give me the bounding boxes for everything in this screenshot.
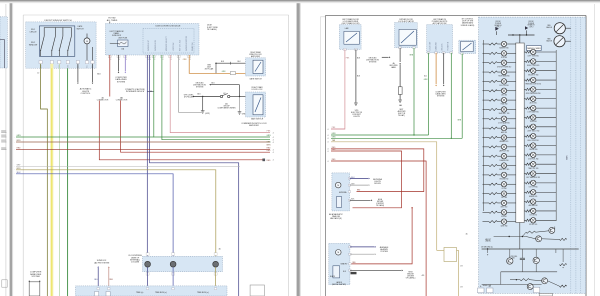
title FRONT WINDOW SWITCH xyxy=(45,20,72,22)
svg-text:SYSTEM: SYSTEM xyxy=(437,95,445,97)
svg-text:4: 4 xyxy=(273,142,274,144)
switch blade 4 xyxy=(67,28,71,57)
driver door lock actuator box xyxy=(395,23,418,48)
row BLU to clockspring motor 2 xyxy=(16,174,173,261)
svg-text:4: 4 xyxy=(327,129,328,131)
svg-text:4: 4 xyxy=(327,135,328,137)
label MST auxpwr left delay xyxy=(398,109,407,117)
right page outer light frame xyxy=(319,17,321,296)
title driver door lock actuator xyxy=(398,19,414,25)
resistor bottom right xyxy=(560,285,567,287)
label clockspring column xyxy=(128,255,142,264)
antenna2 pin cells xyxy=(349,246,351,248)
motor pin labels xyxy=(146,253,149,256)
svg-text:SYSTEM: SYSTEM xyxy=(117,81,126,83)
wire computer data line K with arrow xyxy=(118,55,120,72)
antenna1 pin cells xyxy=(348,178,350,180)
svg-text:4: 4 xyxy=(273,137,274,139)
cluster lamp L11 AIRBAG IND xyxy=(483,135,516,143)
svg-text:4: 4 xyxy=(190,59,191,61)
ground for driver door actuator xyxy=(398,99,402,101)
svg-text:UNIT FUSE: UNIT FUSE xyxy=(118,38,128,40)
power window switch assembly box xyxy=(26,22,96,68)
label combination switch lock amplifier xyxy=(241,122,267,127)
label left light components wires xyxy=(217,104,236,110)
svg-text:DDM CONTROL MODULE: DDM CONTROL MODULE xyxy=(156,26,181,28)
left rear door lock amplifier box xyxy=(339,25,361,50)
cluster lamp L13 CHARGE IND xyxy=(483,154,516,162)
cluster lamp R9 LIGHT FAULT IND xyxy=(524,124,556,132)
svg-text:CONNECTOR: CONNECTOR xyxy=(116,99,128,101)
svg-text:MIRROR SELECT: MIRROR SELECT xyxy=(166,35,168,51)
svg-text:SWITCH: SWITCH xyxy=(76,28,84,30)
cluster top bus xyxy=(508,34,535,36)
right paper edge faint line xyxy=(594,4,596,296)
fuse F1 xyxy=(118,38,128,40)
svg-text:KEY CYL SW: KEY CYL SW xyxy=(180,40,182,51)
svg-text:SYSTEM: SYSTEM xyxy=(380,251,388,253)
wire GRN pin4 to row xyxy=(450,53,452,139)
fuse feed wire xyxy=(109,22,111,40)
cluster lower sub-circuit 3 xyxy=(516,279,517,280)
pin wire color labels inside switch box xyxy=(40,65,42,68)
from power branch label 2 xyxy=(528,21,536,29)
bottom white box in cluster xyxy=(539,293,552,296)
label DDM left side of dash xyxy=(207,25,218,32)
label AS magnetic realign AM radio xyxy=(329,213,344,220)
svg-text:FUSE BOX: FUSE BOX xyxy=(112,35,122,37)
transistor Q2 xyxy=(536,236,542,242)
transistor Q4 xyxy=(533,257,539,263)
from power branch label 1 xyxy=(495,21,503,29)
wire RED from fuse xyxy=(109,55,111,97)
cluster lamp R13 TRAC OFF IND xyxy=(524,162,556,170)
wire NAVY A to clockspring motor 1 xyxy=(146,55,148,261)
left instrument panel fuse box text xyxy=(110,30,124,37)
svg-text:LOCK SW: LOCK SW xyxy=(173,42,175,51)
svg-text:4: 4 xyxy=(171,59,172,61)
title BT control module xyxy=(461,19,475,27)
power branch amp symbol 1 xyxy=(495,27,499,31)
cluster inner dashed conductors xyxy=(570,17,572,293)
label GPS light F pillar xyxy=(184,95,194,99)
inline connector on ORN wire xyxy=(230,72,235,75)
ground GR1 xyxy=(201,110,205,112)
wire BLU sunroof xyxy=(97,266,99,267)
cluster main ground bus xyxy=(482,248,579,250)
switch blade 1 xyxy=(40,28,44,57)
cluster lamp L5 DDS OFF IND xyxy=(483,79,516,87)
label automatic lights control xyxy=(80,88,92,96)
DDM control module outer box xyxy=(106,24,200,56)
row RED 1 to antenna device xyxy=(331,149,424,192)
cluster lamp L2 FOG IND xyxy=(483,51,516,59)
cluster lamp R7 LOW WASH IND xyxy=(524,105,556,113)
label layout rate xyxy=(485,238,491,243)
pin cells box R3 xyxy=(427,52,430,54)
wire BRN/GRN from switch pin jog xyxy=(41,64,48,296)
title right rear door lock upper xyxy=(251,86,263,91)
row TAN to clockspring motor 3 xyxy=(16,170,216,261)
svg-text:GRN: GRN xyxy=(267,135,272,137)
label date switch xyxy=(76,25,84,30)
left page drawing frame xyxy=(22,15,24,296)
bottom strip pin ticks xyxy=(97,288,99,290)
wire PNK from amplifier to left edge row xyxy=(331,49,345,129)
wire to ground GR8 xyxy=(238,111,242,113)
DDM inner pin box xyxy=(143,28,194,53)
cluster bottom right cell xyxy=(534,287,540,293)
svg-text:GR8: GR8 xyxy=(242,114,246,116)
junction stub near DDM xyxy=(147,90,154,92)
transistor Q5 xyxy=(542,278,548,284)
svg-text:DOOR LOCK: DOOR LOCK xyxy=(252,89,264,91)
warning chimes box xyxy=(527,46,542,51)
label computer data lines right page xyxy=(435,91,446,97)
transistor Q1 xyxy=(549,227,555,233)
cluster lamp R19 SPORT IND xyxy=(524,218,556,226)
cluster lamp R18 DOOR IND xyxy=(524,208,556,216)
label computer data lines system top xyxy=(115,77,127,84)
pin cell box R4 xyxy=(461,53,464,55)
wire ORN to door lock amplifier xyxy=(189,55,245,73)
tan path through component box xyxy=(437,249,444,251)
cluster lamp L8 SEAT BELT IND xyxy=(483,107,516,115)
instrument cluster box xyxy=(479,17,586,293)
gate switch box 1 xyxy=(246,58,266,76)
svg-text:TIME (x): TIME (x) xyxy=(136,292,144,294)
svg-text:(LEFT SIDE: (LEFT SIDE xyxy=(207,27,218,29)
wire GRY to ground branch xyxy=(179,55,202,112)
svg-text:DDM: DDM xyxy=(207,25,212,27)
label MAIN vertical xyxy=(566,155,569,160)
clockspring motor 1 xyxy=(145,261,151,267)
cluster lower sub-circuit 1 bus xyxy=(494,236,526,238)
wire to ground GR1 xyxy=(202,97,204,111)
wire RED to row 5 xyxy=(121,101,270,153)
left edge wire stub labels xyxy=(17,135,22,137)
cluster lamp L12 LAMPOUT IND xyxy=(483,144,516,152)
row RED 2 lower loop xyxy=(331,151,402,208)
label GRN 4D4Y F pillar xyxy=(205,64,214,70)
title left rear power shorts module xyxy=(432,18,448,25)
toolbar shadow strip xyxy=(0,0,600,1)
antenna relay coil lower xyxy=(333,266,340,278)
svg-text:4: 4 xyxy=(110,59,111,61)
left rear power shorts box xyxy=(427,25,453,53)
svg-text:4: 4 xyxy=(273,133,274,135)
label speed out xyxy=(483,285,492,287)
row BRN long xyxy=(16,141,270,143)
cluster lamp R12 LOW FUEL IND xyxy=(524,152,556,160)
svg-text:COMPONENTS WIRES: COMPONENTS WIRES xyxy=(217,108,236,110)
svg-text:WINDOW: WINDOW xyxy=(29,44,38,46)
previous page wire stub labels xyxy=(1,130,6,132)
svg-text:CONTROL: CONTROL xyxy=(81,93,92,95)
label ring bridge center of dash xyxy=(406,271,416,279)
bottom connector cells xyxy=(95,292,99,296)
inline component box on tan path xyxy=(444,248,457,262)
computer data lines wires with arrows xyxy=(28,280,30,281)
capacitor C1 xyxy=(521,249,523,258)
cluster lamp L18 BELT IND xyxy=(483,200,516,208)
connector pin boxes under switch box xyxy=(39,61,42,64)
gauge 2 xyxy=(554,36,565,47)
svg-text:WINDOW MOTOR: WINDOW MOTOR xyxy=(186,35,188,51)
wire GRN B to row1 xyxy=(154,55,270,137)
svg-text:M: M xyxy=(86,41,88,43)
wire 2 to automatic lights control with arrow xyxy=(92,64,94,83)
svg-text:4: 4 xyxy=(273,152,274,154)
svg-text:SYSTEM: SYSTEM xyxy=(31,276,40,278)
BT control box xyxy=(459,40,476,53)
cluster lamp L15 ENGINE IND xyxy=(483,172,516,180)
inline component on BLK wire xyxy=(398,87,402,95)
row GRN 1 right page xyxy=(331,134,429,136)
svg-text:4: 4 xyxy=(179,59,180,61)
wire NAVY B to lower right xyxy=(150,55,239,296)
resistor sub1 xyxy=(526,231,536,233)
previous page bottom fragment xyxy=(2,280,7,287)
row GRN 2 right page xyxy=(331,137,462,139)
cluster lamp L20 GATE IND xyxy=(483,219,516,227)
label SPD electric concert lights xyxy=(351,110,363,118)
svg-text:LIGHTS: LIGHTS xyxy=(353,116,360,118)
DDM bottom pin ticks xyxy=(108,55,111,57)
jamb switch contacts xyxy=(220,95,222,97)
row RED 3 long down xyxy=(331,161,426,296)
gap shadow between left and right pages xyxy=(297,3,300,296)
svg-text:SYSTEM: SYSTEM xyxy=(196,86,204,88)
svg-text:TIME BUS (x): TIME BUS (x) xyxy=(197,292,209,294)
wire ORN computer data with arrow xyxy=(435,53,437,85)
label high driver center of dash xyxy=(376,199,385,207)
row PNK right page xyxy=(331,128,345,130)
wire GRN from actuator to row xyxy=(413,48,415,135)
row TAN right page down right side xyxy=(331,142,437,251)
wire YEL from switch xyxy=(50,64,53,296)
pin cells box R1 xyxy=(344,48,347,50)
clockspring motor 2 xyxy=(170,261,176,267)
switch blade 3 xyxy=(59,28,63,57)
cluster lamp R10 HIGH TEMP IND xyxy=(524,133,556,141)
cluster lamp R15 O/D OFF IND xyxy=(524,180,556,188)
svg-text:4: 4 xyxy=(150,59,151,61)
row 6 end connector xyxy=(263,159,265,161)
label gate switch 2 xyxy=(251,118,264,121)
svg-text:4: 4 xyxy=(126,59,127,61)
svg-text:COLUMN: COLUMN xyxy=(131,262,140,264)
gauge 1 xyxy=(554,23,565,34)
cluster lamp L4 HIGH BEAM IND xyxy=(483,69,516,77)
cluster lamp R1 LEFT TURN IND xyxy=(524,49,556,57)
svg-text:UNLOCK: UNLOCK xyxy=(442,43,444,51)
svg-text:CONNECTOR: CONNECTOR xyxy=(97,99,109,101)
cluster lamp R4 PARKING LIGHTS IND xyxy=(524,77,556,85)
cluster lamp L3 LTROW POWER IND xyxy=(483,60,516,68)
wire GRN pin1 to row xyxy=(428,53,430,135)
clockspring motor box xyxy=(143,256,223,271)
wire RED sunroof xyxy=(108,266,110,268)
cluster bottom connector cells xyxy=(478,288,485,293)
antenna lights device box upper xyxy=(332,173,350,211)
switch contact labels xyxy=(30,29,38,33)
svg-text:DEVICE: DEVICE xyxy=(374,183,381,185)
switch blade 2 xyxy=(51,28,55,57)
antenna motor upper xyxy=(335,182,341,188)
cluster lamp R11 CRUISE IND xyxy=(524,143,556,151)
svg-text:4: 4 xyxy=(327,151,328,153)
cluster lamp L19 4X4 IND xyxy=(483,210,516,218)
cluster left feed bus xyxy=(482,40,484,211)
row GRN left segment xyxy=(16,136,154,138)
wires from motors to bottom connector xyxy=(147,267,149,286)
wire LT GRN from switch xyxy=(59,64,61,296)
ground distribution label right page xyxy=(366,57,379,63)
wire GRN C to row2 xyxy=(162,55,270,140)
power shorts pin labels xyxy=(430,42,432,51)
cluster lamp R8 TPMS IND xyxy=(524,115,556,123)
cluster lamp R17 AIR BAG IND xyxy=(524,199,556,207)
svg-text:LOCK OUT: LOCK OUT xyxy=(430,42,432,51)
svg-text:LIGHTS: LIGHTS xyxy=(82,91,90,93)
label interface device xyxy=(125,88,145,93)
title DDM CONTROL MODULE xyxy=(156,26,181,28)
window motor M1 xyxy=(84,38,90,44)
label BLK near switch xyxy=(97,74,101,76)
power branch amp symbol 2 xyxy=(525,26,528,30)
label gate switch 1 xyxy=(249,77,262,80)
antenna lower pin wires xyxy=(350,246,374,248)
cluster lamp L7 TRAK IND xyxy=(483,97,516,105)
channel bottom feed xyxy=(519,223,521,250)
transistor Q3 xyxy=(507,258,513,264)
wire GRN from BT control to row xyxy=(461,54,463,139)
resistor sub1 right xyxy=(560,238,567,240)
switch unit inner box xyxy=(39,26,74,56)
label sunroof system xyxy=(94,260,110,264)
switch top contact rail xyxy=(44,27,71,29)
cluster lamp R6 AUTO IND xyxy=(524,96,556,104)
cluster lower bus 2 xyxy=(501,271,557,273)
svg-text:COMPUTER: COMPUTER xyxy=(30,272,42,274)
svg-text:TIME BUS (x): TIME BUS (x) xyxy=(155,292,167,294)
cluster lamp R5 4WD PRESSURE IND xyxy=(524,87,556,95)
label antenna lights device xyxy=(373,178,382,185)
label 4A near tan wire xyxy=(218,248,221,251)
svg-text:COMPUTER: COMPUTER xyxy=(115,77,127,79)
transistor Q6 xyxy=(527,284,533,290)
cluster lamp L16 OIL IND xyxy=(483,182,516,190)
ground for left rear door xyxy=(354,102,358,104)
wire RED to row 6 xyxy=(99,101,264,160)
antenna lights device box lower xyxy=(329,243,350,284)
svg-text:POWER IN: POWER IN xyxy=(448,41,450,50)
antenna upper pin wires xyxy=(351,177,355,179)
label lands metal water xyxy=(332,281,346,286)
svg-text:SYSTEM: SYSTEM xyxy=(369,61,377,63)
bottom connector strip xyxy=(76,286,228,296)
wire GRN from switch xyxy=(67,68,69,296)
svg-text:4: 4 xyxy=(163,59,164,61)
gate switch box 2 xyxy=(246,92,266,117)
row GRY long xyxy=(16,166,240,168)
cluster center connector channel xyxy=(516,43,524,223)
svg-text:WINDOW UP: WINDOW UP xyxy=(148,39,150,51)
label average alarms system xyxy=(380,246,389,253)
ground distribution label with left arrow xyxy=(193,82,206,88)
cluster lamp R2 RIGHT TURN IND xyxy=(524,59,556,67)
svg-text:4: 4 xyxy=(273,160,274,162)
cluster lamp R14 KEY WARNING IND xyxy=(524,171,556,179)
cluster lamp L1 WASHER IND xyxy=(483,41,516,49)
connector C301 labels xyxy=(97,96,109,101)
svg-text:4: 4 xyxy=(148,59,149,61)
gap shadow between previous page and left page xyxy=(10,3,12,296)
svg-text:WINDOW DN: WINDOW DN xyxy=(155,39,157,51)
right page drawing frame xyxy=(324,16,326,296)
wire BLK from actuator with inline connector xyxy=(399,48,401,62)
svg-text:4: 4 xyxy=(327,161,328,163)
tan riser labels xyxy=(460,266,463,268)
svg-text:4: 4 xyxy=(327,142,328,144)
cluster lamp R16 BRAKE IND xyxy=(524,190,556,198)
wire BLK computer data with arrow xyxy=(443,53,445,85)
svg-text:4: 4 xyxy=(327,138,328,140)
antenna relay coil upper xyxy=(336,197,341,208)
cluster lamp L17 CRT IND xyxy=(483,191,516,199)
wire BLK from amplifier to ground xyxy=(355,49,357,102)
cluster lamp L14 SENT ECT IND xyxy=(483,163,516,171)
label computer data lines bottom left xyxy=(30,272,42,279)
wire to automatic lights control with arrow xyxy=(77,64,79,83)
wire BLK door jamb row xyxy=(193,96,194,97)
empty junction box bottom right xyxy=(250,285,264,296)
wire RED branch to lower antenna xyxy=(352,208,413,264)
antenna motor lower xyxy=(336,250,342,256)
title right rear window lock amplifier xyxy=(249,51,262,58)
wire PNK to row0 xyxy=(170,55,270,133)
row RED long xyxy=(16,149,270,151)
right page left edge row labels xyxy=(332,127,336,129)
cluster lamp L9 DOOR AJAR IND xyxy=(483,116,516,124)
resistor hang right xyxy=(555,249,557,253)
label HOT AT ALL TIMES xyxy=(107,17,118,22)
DDM pin function labels vertical xyxy=(148,39,150,51)
cluster lamp L6 CBC IND xyxy=(483,88,516,96)
svg-text:CIRCLE: CIRCLE xyxy=(30,31,38,33)
cluster lamp R3 SECURITY IND xyxy=(524,68,556,76)
svg-text:4: 4 xyxy=(119,59,120,61)
title left rear door lock amplifier xyxy=(342,18,360,25)
previous page component box fragment xyxy=(0,17,7,68)
pin cells box R2 xyxy=(399,47,402,49)
wire computer data line L with arrow xyxy=(124,55,126,72)
previous page right edge line xyxy=(5,4,7,296)
cluster right bus xyxy=(555,50,557,221)
clockspring motor 3 xyxy=(213,261,219,267)
svg-text:(GR1): (GR1) xyxy=(205,113,210,115)
cluster lamp L10 ABS IND xyxy=(483,125,516,133)
svg-text:4: 4 xyxy=(154,59,155,61)
wire BLK upper branch to amplifier xyxy=(215,62,217,64)
